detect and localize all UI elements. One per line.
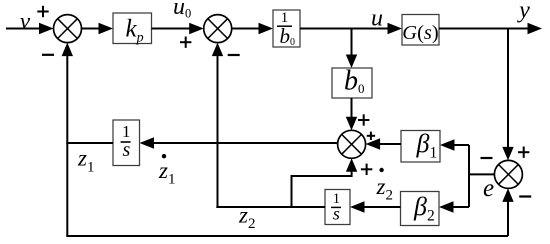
wire z2 rail up to S2 (minus)	[212, 43, 223, 207]
block kp	[113, 13, 152, 46]
svg-text:s: s	[333, 203, 340, 223]
wire e to beta2	[439, 201, 469, 212]
minus sign at summer S2 bottom input	[228, 54, 240, 56]
wire S2 to block 1/b0	[232, 23, 273, 34]
plus sign at summer S3 top input	[358, 114, 369, 125]
plus sign at summer S3 right input	[367, 132, 375, 140]
wire y branch down to summer S4	[502, 29, 513, 161]
summer S3	[338, 130, 366, 158]
wire e to beta1	[440, 139, 469, 150]
minus sign at summer S4 left region	[481, 157, 493, 159]
wire S4 output e to left	[468, 173, 494, 175]
plus sign at summer S3 bottom input	[361, 164, 372, 175]
svg-text:z1: z1	[158, 158, 175, 188]
wire e rail vertical	[468, 145, 470, 207]
label zdot2	[376, 168, 393, 204]
svg-text:u: u	[371, 5, 383, 31]
wire u branch down to b0	[346, 29, 357, 69]
wire beta2 to integrator 1/s second (zdot2)	[350, 201, 401, 212]
svg-text:z1: z1	[77, 146, 94, 176]
wire S3 output to integrator 1/s (zdot1)	[140, 137, 338, 148]
plus sign at summer S4 top input	[518, 147, 529, 158]
block integrator 1/s first	[113, 120, 140, 166]
wire left rail up to S1 (minus)	[62, 43, 73, 236]
summer S1	[54, 15, 82, 43]
block integrator 1/s second	[325, 190, 350, 225]
svg-text:s: s	[123, 139, 131, 161]
wire integrator1 output z1 to left rail	[66, 142, 113, 144]
wire b0 down to summer S3	[346, 98, 357, 130]
wire bottom rail z1 feedback	[66, 235, 508, 237]
svg-text:z2: z2	[376, 174, 393, 204]
label zdot1	[158, 154, 175, 188]
wire z2 branch to S3 bottom (plus)	[292, 158, 358, 207]
wire bottom rail up to summer S4 (minus)	[502, 188, 513, 236]
minus sign at summer S4 bottom input	[519, 195, 531, 197]
wire 1/b0 to G(s) with branch node	[300, 23, 402, 34]
wire v input	[6, 23, 54, 34]
svg-text:y: y	[517, 0, 530, 24]
wire beta1 to S3	[366, 138, 401, 149]
wire z2 from integrator2 to left	[216, 206, 325, 208]
block G(s)	[402, 15, 439, 46]
summer S4	[494, 160, 522, 188]
plus sign at summer S1 top input	[37, 6, 48, 17]
wire G(s) to output y	[439, 23, 542, 34]
block beta1	[401, 129, 440, 162]
svg-text:v: v	[20, 9, 31, 34]
minus sign at summer S1 bottom input	[42, 54, 54, 56]
block 1/b0	[273, 10, 300, 48]
summer S2	[204, 15, 232, 43]
wire kp to summer S2	[152, 23, 204, 34]
block beta2	[401, 192, 440, 226]
plus sign at summer S2 left input	[180, 37, 191, 48]
svg-text:e: e	[483, 175, 494, 202]
svg-text:u0: u0	[173, 0, 191, 21]
block b0	[332, 66, 372, 98]
svg-text:G(s): G(s)	[402, 22, 438, 44]
wire S1 to kp	[82, 23, 114, 34]
